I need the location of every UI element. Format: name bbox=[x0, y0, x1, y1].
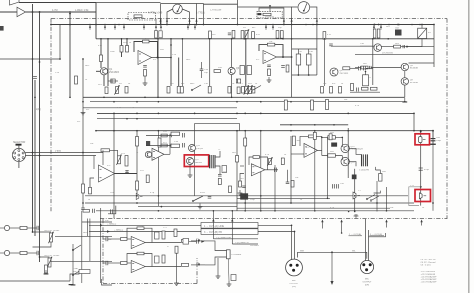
pot RV4 bbox=[249, 87, 252, 94]
wire M2 loop right bbox=[310, 7, 317, 25]
connector XLR1 (L MIC OUTPUT) bbox=[286, 259, 303, 276]
wire C35 down bbox=[297, 65, 299, 75]
ecap C78 bbox=[155, 256, 160, 263]
ground S bbox=[199, 204, 201, 207]
wire U102 input bbox=[0, 11, 17, 13]
resistor R61a bbox=[373, 29, 376, 38]
wire Q8 right bbox=[409, 62, 435, 64]
resistor R118 bbox=[175, 246, 178, 253]
resistor R62 bbox=[361, 66, 368, 69]
wire rec feed x70 bbox=[69, 12, 71, 97]
resistor R43 bbox=[242, 87, 245, 94]
trimmer CT3 bbox=[353, 192, 356, 199]
resistor R52 bbox=[321, 87, 324, 94]
resistor R28 trim bbox=[116, 87, 119, 94]
svg-text:100p: 100p bbox=[436, 140, 442, 142]
switch S-PB2 bbox=[371, 196, 379, 201]
resistor R29 bbox=[125, 87, 128, 94]
op-amp U1 bbox=[138, 51, 152, 65]
svg-text:NR049: NR049 bbox=[195, 162, 203, 164]
pot RV3 bbox=[245, 87, 248, 94]
wire Q3 emitter bbox=[231, 75, 233, 98]
wire mid box right bbox=[413, 113, 415, 131]
wire x60 drop bbox=[59, 25, 61, 60]
wire x314 mid bbox=[314, 131, 316, 211]
rail junction 16 bbox=[398, 24, 400, 26]
transistor Q8 bbox=[401, 63, 408, 70]
trim box REC CAL bbox=[128, 13, 156, 21]
wire corner spb bbox=[374, 191, 381, 193]
highlight box 2 bbox=[415, 134, 430, 145]
wire C4 bbox=[108, 80, 118, 82]
arrow M1 d bbox=[195, 19, 197, 22]
capacitor C66 bbox=[402, 45, 404, 48]
bus rail y211 bbox=[96, 210, 414, 212]
resistor R21 bbox=[100, 55, 103, 62]
supply arrow A8 bbox=[194, 25, 196, 28]
svg-text:(5P): (5P) bbox=[365, 285, 369, 287]
resistor R60 bbox=[311, 100, 314, 110]
capacitor C38 bbox=[329, 43, 333, 45]
wire y135 bbox=[146, 135, 171, 137]
transistor Q12 (in highlight) bbox=[187, 158, 194, 165]
capacitor C53 bbox=[286, 181, 290, 183]
svg-text:C6 DT : Record: C6 DT : Record bbox=[421, 262, 437, 264]
capacitor C4 bbox=[111, 79, 115, 83]
wire left stub bbox=[0, 280, 35, 282]
cap C43d bbox=[146, 141, 150, 146]
mic block box bbox=[79, 270, 90, 274]
rail junction 13 bbox=[373, 24, 375, 26]
ground far left bbox=[45, 270, 47, 273]
resistor R80 bbox=[218, 179, 221, 185]
svg-text:+ 4dBu(+): + 4dBu(+) bbox=[107, 223, 117, 225]
rail junction 6 bbox=[143, 24, 145, 26]
capacitor C26 bbox=[267, 64, 271, 66]
supply arrow A10 bbox=[272, 25, 274, 28]
wire Q7 base bbox=[360, 45, 374, 47]
wire U102 output bbox=[26, 11, 97, 13]
resistor R34 bbox=[214, 70, 221, 73]
capacitor C67 bbox=[369, 66, 371, 69]
wire x291 v bbox=[290, 136, 292, 203]
resistor R54 bbox=[339, 87, 342, 94]
resistor R114 bbox=[162, 231, 165, 239]
label box OUT B bbox=[201, 229, 258, 235]
trimmer RV1 bbox=[134, 15, 142, 18]
board boundary dash-dot right bbox=[446, 19, 448, 220]
wire col x178.7 bbox=[178, 58, 180, 87]
rail junction 18 bbox=[419, 24, 421, 26]
node m1 bbox=[348, 211, 350, 213]
wire x420 v bbox=[420, 131, 422, 206]
sub box top bbox=[195, 124, 240, 196]
resistor R23 bbox=[126, 46, 129, 53]
supply arrow A9 bbox=[265, 25, 267, 28]
resistor R68 bbox=[313, 132, 316, 139]
ecap C77 bbox=[155, 232, 160, 239]
wire U1 feedback bbox=[134, 42, 143, 53]
capacitor C61 bbox=[419, 167, 423, 169]
svg-text:L(R): L(R) bbox=[36, 108, 41, 111]
svg-text:1 → OUT-(A): 1 → OUT-(A) bbox=[349, 233, 361, 236]
relay coil RY1b bbox=[363, 75, 369, 86]
wire coil bbox=[365, 71, 367, 75]
wire y261 bbox=[50, 260, 112, 262]
svg-text:+ 4dBu(+): + 4dBu(+) bbox=[114, 230, 124, 232]
capacitor C83 bbox=[281, 65, 285, 67]
arrow out1 bbox=[100, 224, 103, 226]
capacitor C76 bbox=[105, 261, 107, 265]
resistor R11 bbox=[155, 31, 158, 39]
resistor R19 bbox=[323, 32, 326, 40]
resistor R75b bbox=[136, 181, 139, 190]
arrow M2 b bbox=[316, 19, 318, 22]
jack PHONES bbox=[227, 250, 231, 259]
wire x245 mid bbox=[244, 131, 246, 211]
capacitor C56 bbox=[332, 184, 334, 188]
wire col x108 bbox=[107, 39, 109, 86]
connector CN1 SELECTOR bbox=[12, 148, 25, 161]
resistor R14 bbox=[241, 31, 244, 39]
op-amp U101 (cut at top) bbox=[10, 0, 20, 5]
supply arrow A1 bbox=[104, 25, 106, 28]
wire M2 col bottom bbox=[292, 74, 317, 76]
svg-text:4.7k: 4.7k bbox=[327, 34, 331, 36]
wire x182 top bbox=[181, 39, 183, 86]
wire M1 corner bbox=[203, 4, 205, 25]
wire OL wiring1 bbox=[33, 231, 52, 233]
capacitor C45 bbox=[182, 133, 184, 138]
resistor R90 bbox=[292, 136, 295, 146]
svg-text:REC: REC bbox=[83, 232, 88, 234]
supply arrow A6 bbox=[160, 25, 162, 28]
svg-text:2SC1815: 2SC1815 bbox=[109, 71, 120, 74]
capacitor C6 bbox=[143, 65, 147, 67]
wire loop Q13 bbox=[322, 136, 343, 138]
resistor R75c bbox=[146, 175, 149, 183]
wire phone g bbox=[176, 253, 178, 280]
power rail +B bbox=[51, 24, 434, 26]
resistor R119 bbox=[174, 229, 177, 237]
arrow M2 c bbox=[283, 19, 285, 22]
wire shield bbox=[298, 252, 367, 258]
wire T1 sec bbox=[215, 151, 220, 157]
capacitor C75 bbox=[105, 237, 107, 241]
wire M2 loop left bbox=[292, 7, 298, 25]
wire shield gnd bbox=[331, 252, 333, 281]
wire ph x229 bbox=[227, 259, 230, 281]
rail junction 10 bbox=[272, 24, 274, 26]
supply arrow A0 bbox=[89, 25, 91, 28]
feedback R46 bbox=[267, 43, 274, 46]
node m2 bbox=[354, 211, 356, 213]
ground R30 bbox=[144, 80, 146, 83]
rail y113.4 (middle box top) bbox=[97, 112, 414, 114]
rail junction 1 bbox=[89, 24, 91, 26]
wire x81 v bbox=[81, 211, 83, 283]
svg-text:0 dBu: 0 dBu bbox=[55, 151, 62, 153]
ecap C40 bbox=[247, 66, 251, 75]
jack J-L bbox=[4, 225, 9, 230]
node rail left end bbox=[50, 24, 52, 26]
resistor R17 bbox=[276, 31, 279, 39]
wire u6in bbox=[103, 238, 106, 240]
rail y130.7 bbox=[96, 130, 433, 132]
resistor R94 bbox=[328, 136, 336, 139]
wire out4 v bbox=[231, 211, 233, 244]
CN1 key bar bbox=[16, 144, 22, 146]
wire PBmute loop bbox=[259, 8, 284, 25]
wire M1 loop right bbox=[196, 4, 198, 25]
capacitor C52 bbox=[274, 168, 276, 173]
page right edge bbox=[468, 0, 470, 293]
wire out3 feed bbox=[213, 210, 218, 212]
resistor R78 bbox=[171, 132, 180, 135]
wire relay top bbox=[421, 25, 423, 29]
switch S1a bbox=[192, 85, 201, 90]
wire mid vertical x35 bbox=[34, 80, 36, 236]
wire U101 output bbox=[19, 2, 96, 4]
wire U3 out bbox=[115, 173, 138, 175]
svg-text:REC: REC bbox=[186, 59, 191, 61]
resistor R84 bbox=[244, 138, 247, 146]
meter M1 VU bbox=[173, 4, 183, 14]
wire x433 lower bbox=[432, 131, 434, 211]
resistor R95 bbox=[328, 154, 336, 157]
rail y124.8 bbox=[280, 124, 348, 126]
resistor R87 bbox=[239, 181, 242, 187]
wire loop Q14 bbox=[322, 155, 343, 157]
rail junction 4 bbox=[118, 24, 120, 26]
svg-text:REC: REC bbox=[190, 83, 195, 85]
supply arrows to border bbox=[155, 19, 157, 25]
wire x96 vertical bbox=[95, 3, 97, 39]
feedback R111 bbox=[137, 252, 144, 255]
resistor R103 bbox=[20, 227, 27, 230]
resistor R64 bbox=[326, 100, 329, 110]
svg-text:MIC: MIC bbox=[292, 280, 296, 282]
wire Q13 base bbox=[341, 137, 343, 147]
capacitor C3 bbox=[33, 76, 37, 78]
rail y38.8 bbox=[96, 38, 434, 40]
node y124 a bbox=[290, 124, 292, 126]
switch S2b bbox=[73, 270, 81, 275]
wire out1 bbox=[89, 224, 201, 226]
rail junction 11 bbox=[305, 24, 307, 26]
resistor R69 bbox=[329, 134, 332, 140]
feedback R26 bbox=[143, 40, 150, 43]
wire phones gnd bbox=[217, 258, 219, 273]
resistor R96 bbox=[379, 174, 382, 182]
svg-text:REC: REC bbox=[85, 65, 90, 67]
svg-text:MIC: MIC bbox=[73, 271, 77, 273]
node y124 b bbox=[314, 124, 316, 126]
svg-text:2SC(2240)-R: 2SC(2240)-R bbox=[351, 149, 364, 151]
resistor R102 bbox=[83, 210, 90, 213]
CN1 stem bbox=[18, 146, 20, 149]
resistor R72 bbox=[89, 187, 92, 194]
svg-text:W/R: W/R bbox=[300, 250, 305, 252]
resistor R112 bbox=[121, 238, 128, 241]
resistor R33t bbox=[208, 87, 211, 94]
resistor R76 bbox=[161, 134, 167, 137]
wire Q9 down bbox=[404, 85, 406, 97]
ecap C48 bbox=[222, 166, 227, 173]
rail y107.8 bbox=[83, 107, 237, 109]
ground Q12 bbox=[189, 172, 191, 175]
resistor R22 bbox=[120, 46, 123, 53]
wire col x207 bbox=[209, 39, 211, 86]
wire x100 v bbox=[100, 208, 102, 283]
wire U6 fb bbox=[127, 228, 137, 238]
rail y54.3 bbox=[355, 53, 434, 55]
node CN1 a bbox=[32, 152, 34, 154]
wire u4 in bbox=[240, 165, 244, 167]
wire col x245 bbox=[245, 39, 247, 86]
wire U4 feedback bbox=[249, 157, 253, 165]
svg-text:C6 : 2 (ch): C6 : 2 (ch) bbox=[421, 265, 431, 267]
wire out3 v bbox=[212, 211, 214, 239]
svg-text:PB MUTE: PB MUTE bbox=[265, 16, 275, 18]
svg-text:(5P): (5P) bbox=[292, 286, 296, 288]
op-amp U3 bbox=[99, 165, 115, 182]
wire T2 top bbox=[349, 148, 361, 154]
resistor R86 bbox=[281, 158, 284, 165]
rail junction 3 bbox=[114, 24, 116, 26]
wire sw vert bbox=[72, 244, 74, 281]
wire x137 v bbox=[136, 131, 138, 196]
wire x348 v bbox=[347, 128, 349, 178]
resistor R50 bbox=[268, 69, 271, 76]
ecap C39 bbox=[240, 66, 244, 75]
wire Q14 base bbox=[341, 156, 343, 161]
resistor R101 bbox=[45, 265, 48, 273]
arrow PBmute bbox=[269, 5, 271, 8]
svg-text:L-REC 1.5k: L-REC 1.5k bbox=[75, 8, 89, 12]
capacitor C60 bbox=[431, 138, 436, 140]
feedback R71 bbox=[101, 149, 110, 152]
wire U3 in bbox=[90, 178, 94, 187]
capacitor C41 bbox=[81, 207, 85, 209]
chassis tie 2 bbox=[385, 220, 387, 223]
arrow outR bbox=[191, 264, 205, 266]
board boundary dash-dot left bbox=[50, 19, 52, 213]
wire mid box left bbox=[113, 113, 115, 218]
resistor R59 bbox=[284, 100, 287, 110]
node b1 bbox=[314, 130, 316, 132]
wire step left bbox=[108, 206, 116, 214]
wire xlr2 feed a bbox=[365, 219, 367, 261]
meter M2 VU bbox=[298, 2, 310, 14]
wire out2 bbox=[89, 231, 201, 233]
resistor R76b bbox=[75, 76, 78, 84]
wire col x158 bbox=[157, 39, 159, 98]
wire C36 down bbox=[308, 65, 310, 75]
switch S2c bbox=[252, 86, 261, 91]
wire CN1 right2 bbox=[26, 155, 97, 157]
wire Q8Q9 bbox=[404, 71, 406, 78]
ground phones1 bbox=[217, 273, 219, 276]
resistor R113 bbox=[121, 262, 128, 265]
left edge connector stub bbox=[0, 26, 4, 31]
arrow rec feed bbox=[69, 13, 71, 16]
svg-text:OUTPUT: OUTPUT bbox=[363, 282, 373, 284]
rail junction 14 bbox=[380, 24, 382, 26]
op-amp U6 bbox=[131, 237, 145, 249]
resistor R77 bbox=[161, 144, 167, 147]
svg-text:4-7M: 4-7M bbox=[52, 9, 57, 12]
node r1 bbox=[420, 131, 422, 133]
wire Q1 emitter bbox=[103, 75, 105, 86]
wire x324 v bbox=[323, 39, 325, 86]
wire OL wiring2 bbox=[40, 256, 50, 258]
resistor R32 bbox=[177, 87, 180, 94]
wire T2 bot bbox=[349, 162, 356, 167]
pot RV7 bbox=[118, 156, 121, 164]
wire col x101 bbox=[100, 39, 102, 68]
rail junction 7 bbox=[187, 24, 189, 26]
capacitor C46b bbox=[356, 88, 358, 92]
cap C58 (dark) bbox=[240, 193, 248, 199]
wire x83 v bbox=[82, 59, 84, 204]
board boundary dash-dot phones-bottom bbox=[103, 283, 197, 285]
wire y222 bbox=[82, 221, 112, 223]
svg-text:MIC: MIC bbox=[365, 279, 369, 281]
feedback R85 bbox=[253, 156, 260, 159]
arrow M1 c bbox=[188, 19, 190, 22]
wire x158 mid bbox=[157, 131, 159, 206]
wire M1 lead right bbox=[182, 9, 189, 25]
ecap C35 bbox=[296, 54, 301, 65]
resistor R16 bbox=[252, 32, 255, 39]
svg-text:C (10k) PB: C (10k) PB bbox=[359, 170, 369, 172]
wire bottom-left h bbox=[35, 280, 70, 282]
wire loop bbox=[409, 187, 421, 206]
ground above border bbox=[355, 216, 357, 218]
node U2 out bbox=[282, 56, 284, 58]
ground phones2 bbox=[176, 280, 178, 283]
chassis tie 0 bbox=[321, 220, 323, 223]
board boundary dash-dot top bbox=[51, 18, 447, 20]
wire col x171 bbox=[170, 39, 172, 86]
capacitor C49 bbox=[208, 196, 212, 198]
wire x260 mid bbox=[260, 131, 262, 211]
transistor Q7 bbox=[374, 44, 382, 52]
op-amp U2 bbox=[263, 51, 277, 64]
ground micblk bbox=[69, 284, 74, 285]
wire x386.5 v bbox=[386, 187, 388, 212]
svg-text:+C13 RC/A234P: +C13 RC/A234P bbox=[421, 275, 437, 278]
wire xlr1 feed a bbox=[258, 225, 292, 259]
resistor R15 bbox=[180, 87, 183, 94]
wire col x127 bbox=[126, 39, 128, 50]
rail junction 15 bbox=[388, 24, 390, 26]
arrow tie out3 bbox=[212, 219, 214, 222]
supply arrow A12 bbox=[380, 25, 382, 28]
capacitor C45b bbox=[363, 66, 365, 70]
resistor R53 bbox=[330, 87, 333, 94]
transformer T2 bbox=[361, 154, 363, 166]
wire Q3 collector bbox=[231, 39, 233, 68]
node r3 bbox=[420, 186, 422, 188]
wire R bus vertical bbox=[39, 12, 41, 262]
switch S2a bbox=[73, 245, 81, 250]
resistor R27 bbox=[105, 87, 108, 94]
svg-text:PHONES: PHONES bbox=[232, 254, 242, 256]
capacitor C44 bbox=[169, 144, 171, 148]
resistor R61b bbox=[377, 29, 380, 38]
